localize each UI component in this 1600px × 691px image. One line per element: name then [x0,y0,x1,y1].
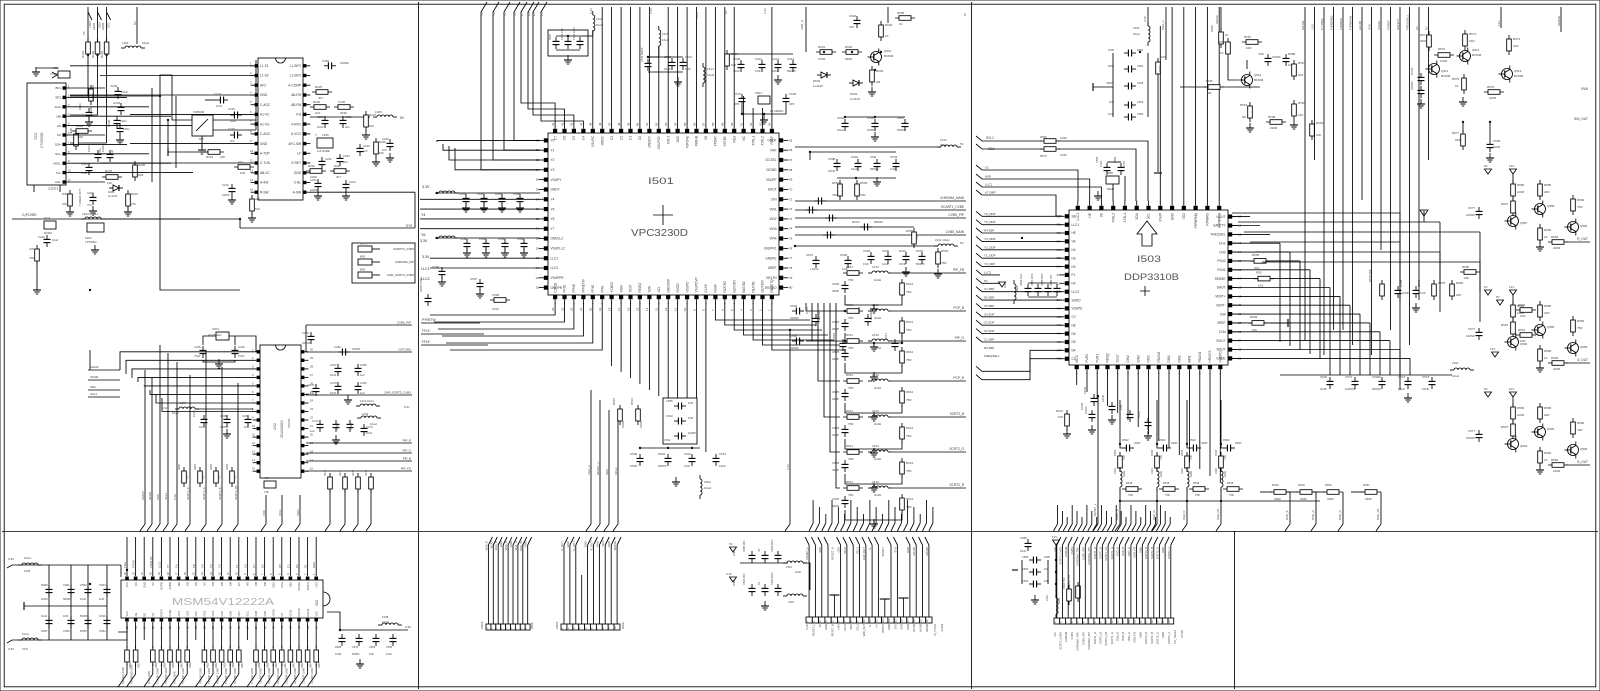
ground [760,115,768,124]
wire [1244,231,1480,233]
junction [105,54,107,56]
svg-text:10uF: 10uF [664,67,671,71]
svg-text:G_OUT: G_OUT [572,541,576,551]
ground [1031,595,1039,604]
svg-text:1K: 1K [899,22,903,26]
svg-text:VR100: VR100 [912,623,916,632]
svg-text:C229: C229 [317,115,324,119]
svg-text:OO7: OO7 [237,610,241,616]
svg-text:SCL: SCL [1147,213,1151,219]
svg-text:10uF: 10uF [52,238,59,242]
wire [873,413,875,417]
svg-text:C6: C6 [261,564,265,568]
svg-text:R555: R555 [906,229,914,233]
junction [763,113,765,115]
wire [1313,491,1325,493]
svg-text:H4.3BP: H4.3BP [984,229,994,233]
svg-text:GND: GND [1170,212,1174,220]
resistor shunt PCP_B [900,317,905,337]
wire [70,142,107,144]
wire [1232,233,1270,235]
wire [845,439,902,449]
capacitor C564 [104,616,111,628]
capacitor C282 [347,420,354,432]
svg-text:R203: R203 [100,50,104,58]
svg-text:5V: 5V [729,542,733,546]
svg-text:3.3V: 3.3V [649,8,653,14]
wire bus entry [1120,537,1124,545]
svg-text:100PF: 100PF [688,431,697,435]
svg-text:HDR: HDR [906,624,910,630]
svg-text:3.3v: 3.3v [162,406,168,410]
wire bus entry [828,523,832,531]
capacitor D565 [85,616,92,628]
resistor R545 [1219,452,1224,472]
svg-text:3u3H: 3u3H [874,493,881,497]
svg-text:R633: R633 [206,662,209,668]
resistor PCP_R series [843,379,863,384]
wire [310,116,370,118]
ground [870,372,878,381]
wire [357,490,359,524]
svg-text:CVBS: CVBS [1070,632,1074,640]
svg-text:46: 46 [598,122,602,126]
svg-text:SYS: SYS [893,624,897,630]
svg-text:R2/CR2: R2/CR2 [723,281,727,293]
ground [1108,415,1116,424]
wire [1055,545,1057,598]
resistor R207 [102,175,122,180]
wire [837,177,896,179]
wire pin net [696,7,698,124]
svg-text:V-RFO: V-RFO [291,122,301,126]
capacitor C224 [343,180,350,192]
svg-text:OO1: OO1 [177,610,181,616]
svg-text:GND: GND [524,541,528,547]
wire bus entry [1171,537,1175,545]
svg-text:R603: R603 [876,69,884,73]
svg-text:47: 47 [607,122,611,126]
svg-text:2M: 2M [876,80,881,84]
svg-text:R583: R583 [1544,349,1552,353]
wire C2.3DP [976,329,1062,334]
wire pin net [648,7,650,124]
svg-text:5V: 5V [1496,295,1500,299]
IC X3863M phase box [192,115,213,136]
wire bus entry [1103,524,1107,531]
wire VGA_V [590,390,592,524]
wire [420,228,539,230]
inductor L214 [356,404,380,406]
svg-text:Y7: Y7 [166,564,170,568]
svg-text:60: 60 [730,122,734,126]
capacitor C577 [1476,430,1483,442]
wire [421,322,480,324]
svg-text:27PF: 27PF [1122,160,1126,167]
svg-text:OSD_G: OSD_G [1127,632,1131,641]
capacitor D590 [1029,569,1041,576]
svg-text:L214 10uH: L214 10uH [360,399,374,403]
wire bus entry [929,523,933,531]
svg-text:R512: R512 [906,497,914,501]
wire [1199,373,1201,469]
svg-text:AGC: AGC [54,105,61,109]
junction [1097,395,1099,397]
capacitor C546 [645,59,652,71]
wire [172,119,192,121]
svg-text:25: 25 [536,286,540,290]
svg-text:FF1E: FF1E [422,340,430,344]
svg-text:F3P3RQ 220R: F3P3RQ 220R [121,667,125,684]
wire [70,153,149,155]
svg-text:CLKW: CLKW [168,581,172,589]
wire [705,303,707,452]
wire mem [143,537,145,576]
svg-text:C586 18N: C586 18N [743,541,746,552]
IC I301 audio processor [258,58,303,200]
resistor R633 220R [237,646,242,666]
svg-text:C3.3DP: C3.3DP [984,321,995,325]
bead L2011 [230,467,235,487]
svg-text:71: 71 [789,197,793,201]
inductor [703,63,705,87]
svg-text:100NF: 100NF [306,392,315,396]
svg-text:Y3: Y3 [480,12,484,16]
inductor SCRT2_B [868,415,892,417]
svg-text:PIP_R: PIP_R [403,439,411,443]
svg-text:10NF: 10NF [99,614,106,618]
svg-text:FPDAT: FPDAT [714,136,718,146]
wire VSUP [1159,26,1161,201]
svg-text:L522: L522 [1045,595,1049,601]
svg-text:NC: NC [151,582,155,586]
svg-text:GND: GND [607,541,611,547]
resistor Q584 bias [1511,301,1516,321]
svg-text:3u3H: 3u3H [874,422,881,426]
wire [196,408,253,410]
svg-text:R210: R210 [206,155,214,159]
wire bus entry [595,524,600,531]
wire bus entry [1083,524,1087,531]
svg-text:Y0: Y0 [513,12,517,16]
wire conn2 [593,545,595,624]
wire bus entry [1311,524,1316,531]
wire [175,96,177,168]
svg-text:C528: C528 [840,253,848,257]
capacitor C272 [317,420,324,432]
wire conn4 [1107,545,1109,618]
wire Y2 [493,2,540,160]
svg-text:R605: R605 [897,11,905,15]
wire OSD_B [1289,505,1291,524]
svg-text:VR1TN: VR1TN [766,276,777,280]
svg-text:10NF: 10NF [630,464,638,468]
svg-text:C527: C527 [806,253,814,257]
svg-text:R511: R511 [846,480,853,484]
wire bus entry [273,674,282,687]
wire mid rail [24,605,107,607]
svg-text:3u3H: 3u3H [795,570,801,574]
wire pin net [667,7,669,124]
svg-text:5V: 5V [1425,26,1429,30]
svg-text:75R: 75R [1577,205,1583,209]
svg-text:DIN1: DIN1 [1167,355,1171,362]
svg-text:BC848: BC848 [1472,53,1482,57]
svg-text:RESDO: RESDO [765,286,777,290]
svg-text:C228: C228 [345,115,352,119]
wire [873,449,875,453]
capacitor C577 [1476,328,1483,340]
svg-text:R225: R225 [315,85,323,89]
wire F3PBRHB [1352,7,1354,345]
wire conn4 [1158,545,1160,618]
wire [238,664,240,674]
svg-text:LLC2: LLC2 [1072,290,1080,294]
svg-text:R564: R564 [1298,61,1306,65]
svg-text:D567: D567 [41,629,48,633]
wire [1309,270,1311,354]
svg-text:Y3_DDP: Y3_DDP [984,237,996,241]
svg-text:PCP_R: PCP_R [953,376,964,380]
svg-text:SCRT2_A: SCRT2_A [1167,547,1171,559]
wire bus entry [809,523,813,531]
resistor R604 [879,21,884,41]
capacitor C585 [674,403,686,410]
svg-text:HB100: HB100 [925,547,929,556]
svg-text:VGA_V: VGA_V [587,465,591,475]
svg-text:LLC1: LLC1 [157,561,161,568]
wire 3.3V [1147,7,1149,26]
svg-text:80: 80 [789,286,793,290]
wire bus entry [299,674,308,687]
svg-text:SCART2_CVBS: SCART2_CVBS [941,205,964,209]
svg-text:CVBS_MAIN: CVBS_MAIN [946,230,965,234]
svg-text:R586: R586 [1544,183,1552,187]
wire bus entry [1127,524,1131,531]
svg-text:58: 58 [711,122,715,126]
wire conn4 [1147,545,1149,618]
wire CVBS_PIP [306,324,412,326]
svg-text:RESET_L: RESET_L [811,623,815,635]
svg-text:CLKR: CLKR [168,609,172,616]
capacitor shunt SCRT2_G [842,460,849,472]
ground [215,359,223,368]
svg-text:L207: L207 [180,401,187,405]
wire [205,99,216,101]
svg-text:10uF: 10uF [386,652,392,656]
resistor R586m [1460,270,1480,275]
svg-text:C577: C577 [1468,429,1476,433]
transistor Q586 [1565,340,1579,357]
svg-text:Q585: Q585 [1547,325,1555,329]
svg-text:R227: R227 [369,113,377,117]
wire [1232,251,1290,253]
wire conn2 [575,545,577,624]
svg-text:51: 51 [645,122,649,126]
capacitor C598 [1487,140,1494,152]
svg-text:10uF: 10uF [851,167,858,171]
resistor R552 [838,180,843,200]
resistor R208 [68,190,73,210]
inductor PIP_G [868,339,892,341]
svg-text:CH1: CH1 [1219,241,1226,245]
ground [674,77,682,86]
svg-text:E/W_OUT: E/W_OUT [862,547,866,560]
wire bus entry [1182,524,1187,531]
capacitor shunt SCRT2_B [842,425,849,437]
svg-text:1K: 1K [1455,84,1459,88]
resistor R213 [74,130,79,150]
svg-text:22K: 22K [91,85,95,90]
wire stub [1140,517,1142,524]
wire conn3 [915,545,917,617]
inductor L215 [357,416,381,418]
svg-text:C3: C3 [286,564,290,568]
svg-text:12V: 12V [1497,21,1501,26]
svg-text:3K3: 3K3 [1298,73,1304,77]
resistor SCRT2_R series [843,486,863,491]
wire conn4 [1090,545,1092,618]
svg-text:10uF: 10uF [80,597,87,601]
svg-text:CHROM: CHROM [1064,631,1068,642]
wire bus entry [230,674,239,687]
svg-text:42: 42 [560,122,564,126]
svg-text:10K: 10K [1058,415,1063,419]
wire bus entry [277,524,282,531]
svg-text:R512: R512 [906,282,914,286]
wire [742,106,786,114]
ground [1404,393,1412,402]
wire bus entry [98,12,102,20]
wire bus entry [1054,524,1058,531]
svg-text:C245: C245 [194,345,201,349]
wire VIN3 [795,226,914,228]
wire 5V [136,7,138,44]
transistor Q514 [1239,72,1253,89]
svg-text:T201: T201 [34,132,38,140]
svg-text:HA100: HA100 [919,623,923,632]
svg-text:XTAL2: XTAL2 [761,136,765,146]
svg-text:GNDDVP: GNDDVP [666,279,670,293]
wire HR100 [1304,7,1306,340]
svg-text:R571: R571 [1420,33,1428,37]
wire mem [169,537,171,576]
wire bus entry [923,523,927,531]
wire [1232,216,1250,218]
svg-text:SDA: SDA [818,547,822,553]
svg-text:1K2: 1K2 [1258,284,1264,288]
wire OSD_G [1315,505,1317,524]
svg-text:Q511: Q511 [1441,69,1448,73]
transistor Q511 [1426,61,1440,78]
wire pin net [677,7,679,124]
wire [686,303,688,436]
capacitor C541 [680,58,687,70]
wire mem down [126,622,128,648]
svg-text:22R: 22R [1544,311,1550,315]
wire [156,394,253,403]
svg-text:C534: C534 [837,116,845,120]
capacitor C509 [637,454,644,466]
svg-text:C591: C591 [1022,579,1029,583]
svg-text:Y7: Y7 [551,227,555,231]
svg-text:22K: 22K [1456,293,1461,297]
resistor VGA_FB out [1223,487,1243,492]
wire [734,303,822,330]
svg-text:5V: 5V [960,241,964,245]
svg-text:VSUPD: VSUPD [685,281,689,293]
svg-text:10uF: 10uF [1108,112,1114,116]
wire top pin [1206,7,1208,201]
wire bus entry [822,523,826,531]
svg-text:C585: C585 [666,399,673,403]
wire [87,55,89,96]
wire 5V rail [795,146,941,148]
wire chain feed [824,303,840,417]
svg-text:AVD: AVD [676,135,680,142]
capacitor C221 [315,179,322,191]
capacitor C583 [483,239,490,251]
wire [126,664,128,674]
wire bus entry [824,537,828,545]
diode D502 [817,72,831,78]
svg-text:SCRT3_CVBS: SCRT3_CVBS [1059,547,1063,565]
svg-text:GND: GND [824,624,828,630]
svg-text:VPROT: VPROT [881,547,885,557]
wire bus entry [1152,524,1156,531]
capacitor C260 [355,364,362,376]
capacitor C537 [739,94,746,106]
svg-text:SENSE: SENSE [1557,16,1561,26]
wire [1359,314,1361,375]
inductor L523 [1120,467,1122,491]
resistor base [1511,197,1516,217]
svg-text:TEST: TEST [1116,354,1120,362]
svg-text:L526: L526 [1214,468,1218,474]
svg-text:HR100: HR100 [1215,15,1219,24]
wire bus entry [185,524,190,531]
svg-text:VGA_R: VGA_R [484,541,488,550]
wire stub [1091,511,1093,524]
svg-text:0R: 0R [1208,91,1212,95]
wire conn4 [1067,545,1069,618]
svg-text:IO1: IO1 [134,581,138,586]
wire [264,664,266,674]
junction [339,629,341,631]
resistor R630 220R [211,646,216,666]
svg-text:10NF: 10NF [1493,145,1501,149]
wire bus entry [147,524,152,531]
wire bus entry [891,523,895,531]
resistor base [1511,318,1516,338]
ground [91,245,99,254]
wire [1093,86,1113,88]
svg-text:Y4: Y4 [421,213,425,217]
resistor R626 220R [176,646,181,666]
wire U1 [1418,7,1420,300]
svg-text:R576: R576 [1487,85,1495,89]
junction [741,113,743,115]
svg-text:R645: R645 [318,662,321,668]
wire pin net [714,7,716,124]
wire [1379,332,1381,375]
resistor PIP_FB series [843,271,863,276]
wire Y2_DDP [976,245,1062,250]
svg-text:CHROMA_TRK: CHROMA_TRK [1076,632,1080,651]
wire stub [881,514,883,523]
svg-text:3P3: 3P3 [789,102,795,106]
svg-text:VIN2: VIN2 [769,217,776,221]
